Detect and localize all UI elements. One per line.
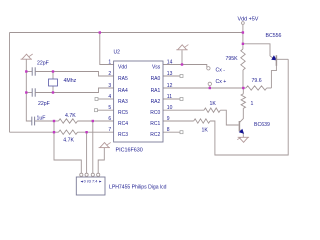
LCD pin 4 xyxy=(97,173,100,176)
svg-text:22pF: 22pF xyxy=(37,60,49,66)
resistor R4 79.6 xyxy=(246,86,267,90)
no-connect pin 5 RC5 xyxy=(95,109,98,112)
svg-text:RA4: RA4 xyxy=(118,88,128,94)
svg-text:9: 9 xyxy=(167,116,170,122)
resistor R5 1K (RC0 to BC639 base) xyxy=(163,109,204,111)
svg-text:2: 2 xyxy=(108,71,111,77)
resistor R7 1 xyxy=(242,88,244,94)
LCD pin 3 xyxy=(91,173,94,176)
svg-text:RC5: RC5 xyxy=(118,110,128,116)
resistor R1 4.7K (RC4 row) xyxy=(59,119,78,123)
svg-text:1: 1 xyxy=(251,101,254,107)
wire Vdd bus down xyxy=(242,33,244,50)
connector Vdd +5V xyxy=(242,22,245,25)
svg-text:7: 7 xyxy=(108,127,111,133)
svg-text:RA3: RA3 xyxy=(118,99,128,105)
no-connect pin 11 RA2 xyxy=(163,98,180,100)
wire top Vdd rail xyxy=(10,32,243,34)
svg-text:8: 8 xyxy=(167,127,170,133)
svg-text:1uF: 1uF xyxy=(37,115,46,121)
svg-text:14: 14 xyxy=(167,59,173,65)
svg-text:Vss: Vss xyxy=(152,64,161,70)
capacitor C1 22pF xyxy=(26,71,32,73)
wire RA1 pin 12 row xyxy=(163,87,243,89)
svg-text:6: 6 xyxy=(108,116,111,122)
wire to LCD pin 1 xyxy=(54,132,81,173)
wire to LCD pin 3 xyxy=(92,121,94,173)
svg-text:RA2: RA2 xyxy=(151,99,161,105)
svg-text:BC639: BC639 xyxy=(254,122,270,128)
wire C2 to RA4 pin 3 xyxy=(35,88,113,93)
capacitor C2 22pF xyxy=(26,92,32,94)
LCD module LPH7455 xyxy=(76,177,105,195)
junction dots xyxy=(99,31,101,33)
transistor Q1 BC556 xyxy=(270,56,276,60)
LCD pin 1 xyxy=(80,173,83,176)
no-connect pin 13 RA0 xyxy=(163,75,180,77)
crystal X1 4Mhz xyxy=(52,72,54,80)
transistor Q2 BC639 xyxy=(238,121,240,131)
IC U2 PIC16F630 body xyxy=(114,61,163,142)
svg-text:1K: 1K xyxy=(210,101,217,107)
no-connect pin 4 RA3 xyxy=(95,98,98,101)
svg-text:10: 10 xyxy=(167,105,173,111)
capacitor C3 1uF xyxy=(31,117,33,126)
ground xyxy=(238,136,249,138)
svg-text:RA5: RA5 xyxy=(118,76,128,82)
resistor R3 795K xyxy=(241,49,245,70)
svg-text:79.6: 79.6 xyxy=(252,78,262,84)
power arrow left (osc bus) xyxy=(21,58,32,60)
wire Vdd to pin 1 xyxy=(100,33,114,65)
svg-text:U2: U2 xyxy=(114,50,121,56)
LCD pin 2 xyxy=(85,173,88,176)
connector Cx+ xyxy=(208,82,211,85)
svg-text:PIC16F630: PIC16F630 xyxy=(116,148,143,154)
svg-text:RC4: RC4 xyxy=(118,121,128,127)
svg-text:4Mhz: 4Mhz xyxy=(64,78,77,84)
svg-text:4: 4 xyxy=(108,94,111,100)
svg-text:RC3: RC3 xyxy=(118,132,128,138)
svg-text:4.7K: 4.7K xyxy=(65,113,76,119)
svg-text:4.7K: 4.7K xyxy=(63,138,74,144)
wire left oscillator bus xyxy=(26,59,31,121)
svg-text:3: 3 xyxy=(108,83,111,89)
svg-text:22pF: 22pF xyxy=(38,101,50,107)
power arrow at pin 14 xyxy=(181,50,183,64)
svg-text:Cx +: Cx + xyxy=(216,79,227,85)
svg-text:Cx -: Cx - xyxy=(216,67,226,73)
wire left vertical xyxy=(9,33,11,133)
svg-text:13: 13 xyxy=(167,71,173,77)
wire junction column x=54 xyxy=(53,121,55,132)
svg-text:Vdd +5V: Vdd +5V xyxy=(238,17,259,23)
svg-text:RA1: RA1 xyxy=(151,88,161,94)
wire to LCD pin 2 xyxy=(86,132,88,173)
svg-text:BC556: BC556 xyxy=(266,33,282,39)
resistor R6 1K (RC1 to BC556 collector loop) xyxy=(163,120,194,122)
wire Vss pin 14 to Cx- xyxy=(163,65,207,68)
svg-text:RC0: RC0 xyxy=(150,110,160,116)
svg-text:RC1: RC1 xyxy=(150,121,160,127)
connector Cx- xyxy=(207,67,210,70)
svg-text:Vdd: Vdd xyxy=(118,64,127,70)
wire Vdd to BC556 emitter xyxy=(243,44,270,56)
svg-text:795K: 795K xyxy=(226,56,239,62)
wire C1 to RA5 pin 2 xyxy=(35,72,113,77)
svg-text:RC2: RC2 xyxy=(150,132,160,138)
svg-text:12: 12 xyxy=(167,83,173,89)
svg-text:RA0: RA0 xyxy=(151,76,161,82)
resistor R2 4.7K (RC3 row) xyxy=(59,130,78,134)
no-connect pin 8 RC2 xyxy=(163,131,180,133)
svg-text:1K: 1K xyxy=(202,128,209,134)
svg-text:LPH7455 Philips Diga lcd: LPH7455 Philips Diga lcd xyxy=(109,185,167,191)
wire bottom-left to RC3 row xyxy=(10,131,55,133)
svg-text:11: 11 xyxy=(167,94,172,100)
svg-text:5: 5 xyxy=(108,105,111,111)
power arrow at PIC / LCD pin 4 xyxy=(99,147,110,149)
svg-text:1: 1 xyxy=(108,59,111,65)
svg-text:◄0 i/3 7:4 ►: ◄0 i/3 7:4 ► xyxy=(80,179,103,183)
